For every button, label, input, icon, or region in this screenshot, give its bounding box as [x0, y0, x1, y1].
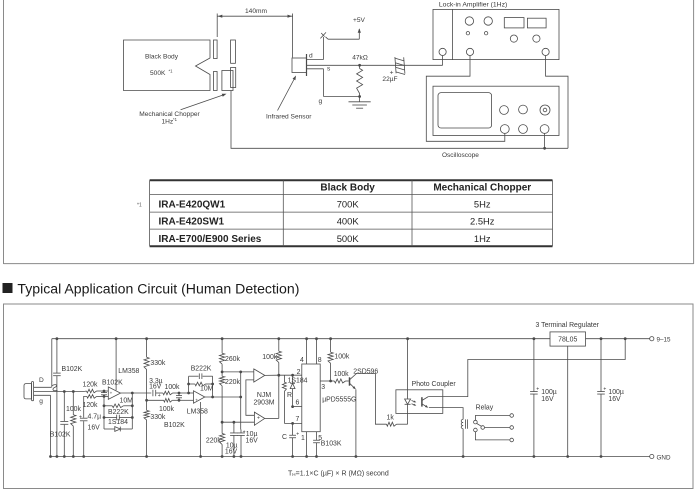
formula label [288, 470, 389, 477]
op-amp LM358 (second) [187, 391, 208, 458]
svg-text:Typical Application Circuit (H: Typical Application Circuit (Human Detec… [17, 281, 299, 297]
svg-text:100k: 100k [334, 353, 349, 360]
black body label [145, 54, 179, 78]
svg-text:B103K: B103K [321, 440, 342, 447]
wire lock-in to oscilloscope right [546, 56, 568, 149]
svg-text:+: + [536, 386, 539, 392]
wire lock-in to oscilloscope left [426, 56, 505, 142]
svg-text:100k: 100k [159, 406, 174, 413]
dimension 140mm [217, 8, 292, 58]
comparator NJM2903M (upper) [254, 369, 265, 382]
pin 5 wire and capacitor B103K [313, 432, 342, 458]
svg-text:7: 7 [295, 416, 299, 423]
svg-text:100k: 100k [66, 406, 81, 413]
wire comparator band [246, 380, 255, 415]
terminal 9-15V [650, 337, 671, 344]
threshold chain 220k (middle) [220, 371, 241, 424]
infrared sensor label + arrow [266, 76, 312, 121]
op-amp2 feedback capacitor B222K [189, 366, 213, 397]
svg-text:B102K: B102K [102, 380, 123, 387]
table grid [150, 180, 553, 246]
svg-text:+5V: +5V [353, 17, 366, 24]
svg-text:330k: 330k [150, 360, 165, 367]
svg-text:10M: 10M [200, 386, 214, 393]
pin 1 wire [301, 432, 308, 458]
GND rail [49, 455, 650, 458]
svg-text:LM358: LM358 [118, 368, 139, 375]
svg-text:*1: *1 [137, 203, 142, 209]
op-amp LM358 (first) [108, 337, 139, 399]
svg-text:500K: 500K [337, 233, 360, 244]
svg-text:+: + [257, 416, 260, 422]
V+ rail [52, 338, 650, 340]
svg-text:2903M: 2903M [253, 400, 274, 407]
svg-text:120k: 120k [83, 382, 98, 389]
pin 4 wire [300, 337, 308, 364]
oscilloscope label [442, 152, 479, 159]
wire lock-in input from sensor [442, 56, 444, 66]
wire source line [64, 391, 84, 393]
photo coupler transistor [422, 397, 428, 408]
svg-text:700K: 700K [337, 198, 360, 209]
svg-text:Photo Coupler: Photo Coupler [412, 381, 457, 388]
svg-text:IRA-E420SW1: IRA-E420SW1 [159, 217, 225, 228]
table row IRA-E420SW1 [159, 216, 495, 228]
svg-text:+: + [158, 393, 161, 399]
svg-text:16V: 16V [246, 437, 259, 444]
svg-text:LM358: LM358 [187, 408, 208, 415]
svg-text:16V: 16V [149, 383, 162, 390]
svg-text:Black Body: Black Body [320, 182, 375, 193]
capacitor 10uF (left) [225, 421, 238, 458]
svg-text:100k: 100k [262, 354, 277, 361]
svg-text:Lock-in Amplifier (1Hz): Lock-in Amplifier (1Hz) [439, 2, 507, 9]
photo coupler box [396, 381, 456, 414]
svg-text:3: 3 [321, 384, 325, 391]
svg-text:TH=1.1×C (µF) × R (MΩ) second: TH=1.1×C (µF) × R (MΩ) second [288, 470, 389, 477]
svg-text:*1: *1 [173, 117, 178, 122]
svg-text:1S184: 1S184 [108, 419, 128, 426]
section heading [3, 281, 300, 297]
svg-text:100µ: 100µ [608, 389, 623, 396]
svg-text:2: 2 [297, 369, 301, 376]
svg-text:120k: 120k [83, 402, 98, 409]
svg-text:260k: 260k [225, 356, 240, 363]
svg-text:GND: GND [657, 454, 671, 461]
svg-text:100k: 100k [334, 371, 349, 378]
svg-text:10M: 10M [120, 397, 134, 404]
svg-text:Oscilloscope: Oscilloscope [442, 152, 479, 159]
oscilloscope knobs [500, 105, 550, 133]
svg-text:220k: 220k [206, 437, 221, 444]
capacitor 3.3uF coupling [149, 378, 163, 399]
svg-text:1k: 1k [387, 414, 395, 421]
sensor pin g wire [307, 69, 360, 105]
svg-text:B102K: B102K [164, 422, 185, 429]
svg-text:B222K: B222K [108, 409, 129, 416]
table row IRA-E700/E900 Series [159, 233, 491, 245]
svg-text:IRA-E420QW1: IRA-E420QW1 [159, 199, 226, 210]
wire chopper sync to oscilloscope [231, 91, 568, 150]
sensor drain wire to rail [51, 339, 53, 388]
svg-text:C: C [282, 434, 287, 441]
svg-text:Black Body: Black Body [145, 54, 179, 61]
resistor 100k (filter lower) [147, 399, 179, 413]
pin 7 wire [284, 416, 301, 425]
lock-in amplifier knobs [439, 17, 549, 56]
svg-text:NJM: NJM [257, 392, 271, 399]
svg-text:22µF: 22µF [382, 76, 397, 83]
pull-up resistor 100k (comparator) [262, 337, 281, 375]
lock-in amplifier box [433, 2, 559, 60]
svg-text:100µ: 100µ [541, 389, 556, 396]
resistor 47k-ohm [352, 55, 368, 98]
table header row [320, 182, 531, 193]
capacitor B102K (drain) [53, 337, 82, 458]
sensor pin d wire to +5V [307, 17, 366, 60]
op-amp1 feedback capacitor B222K [103, 409, 134, 420]
top section frame [4, 0, 694, 264]
svg-text:B102K: B102K [50, 432, 71, 439]
capacitor 22uF [382, 57, 405, 83]
svg-text:D: D [39, 377, 44, 384]
svg-text:8: 8 [318, 357, 322, 364]
capacitor B102K (source) [50, 390, 71, 458]
op-amp1 feedback resistor 10M [103, 393, 134, 429]
svg-text:R: R [287, 392, 292, 399]
svg-text:4.7µ: 4.7µ [88, 413, 102, 420]
svg-text:Mechanical Chopper: Mechanical Chopper [433, 182, 531, 193]
capacitor C (timer) [282, 423, 299, 458]
svg-text:330k: 330k [150, 414, 165, 421]
svg-text:Infrared Sensor: Infrared Sensor [266, 114, 312, 121]
svg-text:78L05: 78L05 [558, 337, 577, 344]
svg-text:µPD5555G: µPD5555G [322, 396, 356, 403]
base resistor 100k [331, 371, 350, 383]
svg-text:140mm: 140mm [245, 8, 267, 15]
oscilloscope box [433, 86, 559, 135]
svg-text:+: + [296, 431, 299, 437]
op-amp2 input wires [179, 392, 194, 401]
resistor 100k (filter upper) [156, 384, 180, 395]
svg-text:9–15: 9–15 [657, 337, 672, 344]
resistor 120k (upper) [83, 382, 109, 393]
wire signal junction vertical [239, 372, 242, 430]
collector wire to 1k [357, 374, 387, 425]
svg-text:g: g [319, 98, 323, 105]
threshold chain 260k [220, 337, 241, 372]
svg-text:16V: 16V [608, 396, 621, 403]
svg-text:47kΩ: 47kΩ [352, 55, 368, 62]
transistor 2SD596 [350, 369, 379, 390]
svg-text:+: + [195, 398, 198, 403]
svg-text:1Hz: 1Hz [162, 119, 174, 126]
capacitor 100uF (right) [597, 337, 624, 458]
divider resistor 330k (lower) [144, 399, 166, 458]
svg-text:2.5Hz: 2.5Hz [470, 216, 495, 227]
ground symbol [349, 97, 371, 109]
svg-text:+: + [79, 414, 82, 420]
svg-text:Mechanical Chopper: Mechanical Chopper [139, 111, 200, 118]
resistor 100k (source load) [66, 390, 81, 458]
svg-text:g: g [39, 398, 43, 405]
threshold chain 220k (lower) [206, 422, 225, 458]
relay coil [461, 419, 467, 458]
svg-text:500K: 500K [150, 70, 166, 77]
svg-text:2SD596: 2SD596 [353, 369, 378, 376]
comparator NJM2903M (lower) [254, 412, 264, 425]
emitter wire to GND [355, 389, 358, 458]
op-amp2 output wire [205, 396, 241, 399]
svg-text:400K: 400K [337, 216, 360, 227]
regulator 78L05 [536, 322, 600, 458]
label NJM2903M [253, 392, 274, 407]
resistor 1k [387, 414, 408, 426]
op-amp1 feedback diode 1S184 [104, 419, 132, 432]
mechanical chopper blades [214, 40, 236, 91]
photo coupler LED [405, 337, 417, 424]
svg-text:16V: 16V [541, 396, 554, 403]
pin 2 label [297, 369, 301, 376]
terminal GND [650, 454, 671, 461]
pin 6 wire [291, 400, 302, 408]
capacitor B102K across op-amp1 inputs [101, 380, 123, 398]
infrared sensor (test setup) [292, 54, 307, 76]
svg-text:B222K: B222K [191, 366, 212, 373]
timer IC uPD5555G [302, 364, 357, 432]
capacitor B102K across op-amp2 inputs [164, 392, 185, 429]
svg-text:B102K: B102K [62, 366, 83, 373]
pyroelectric sensor [24, 377, 64, 457]
svg-text:IRA-E700/E900 Series: IRA-E700/E900 Series [159, 234, 262, 245]
svg-text:4: 4 [300, 357, 304, 364]
wire threshold to comparator 2 [222, 421, 254, 423]
svg-text:d: d [309, 53, 313, 60]
sensor pin s signal wire [307, 65, 443, 72]
photo transistor collector wire [428, 337, 626, 396]
pin 3 wire [320, 380, 332, 391]
black body box [124, 40, 211, 91]
chopper motor box [222, 71, 233, 91]
op-amp1 output wire [121, 392, 152, 395]
svg-text:1Hz: 1Hz [474, 233, 491, 244]
svg-text:220k: 220k [225, 379, 240, 386]
svg-text:1: 1 [301, 435, 305, 442]
diode 1S184 (timer) [288, 375, 308, 406]
svg-text:5Hz: 5Hz [474, 198, 491, 209]
svg-text:+: + [603, 386, 606, 392]
table row IRA-E420QW1 [137, 198, 491, 210]
op-amp2 feedback resistor 10M [187, 382, 214, 393]
capacitor 100uF (left) [530, 337, 557, 458]
svg-text:+: + [110, 390, 113, 395]
resistor R (timer) [282, 375, 292, 423]
svg-text:Relay: Relay [476, 404, 494, 411]
svg-text:16V: 16V [225, 449, 238, 456]
wire threshold to comparator 1 [222, 371, 254, 374]
svg-text:6: 6 [295, 400, 299, 407]
comparator output wires [265, 374, 302, 419]
resistor 120k (lower) and 4.7uF branch [79, 395, 108, 458]
relay contacts [474, 404, 514, 442]
pin 8 wire [315, 337, 322, 364]
svg-text:100k: 100k [165, 384, 180, 391]
divider resistor 330k (upper) [144, 337, 166, 400]
photo transistor emitter wire to relay coil [429, 408, 463, 420]
pull-up resistor 100k (timer out) [328, 337, 350, 381]
application circuit frame [4, 304, 694, 489]
capacitor 10uF (right) [237, 430, 258, 458]
svg-text:*1: *1 [169, 69, 174, 74]
svg-text:3 Terminal Regulater: 3 Terminal Regulater [536, 322, 600, 329]
svg-text:16V: 16V [88, 425, 101, 432]
mechanical chopper label + arrow [139, 94, 226, 126]
